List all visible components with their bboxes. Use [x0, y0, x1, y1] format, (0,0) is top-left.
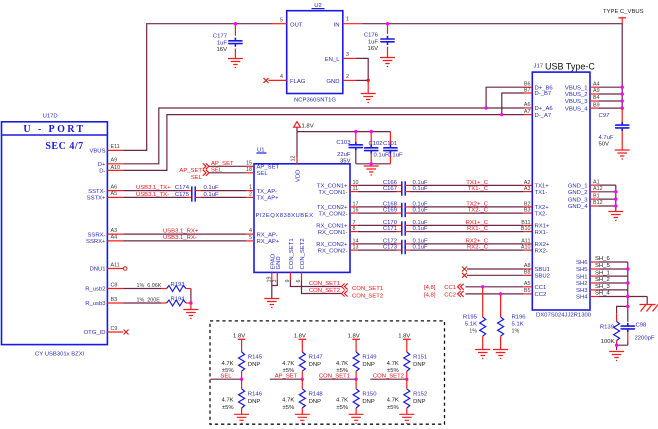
svg-text:15: 15 [246, 160, 252, 166]
svg-text:SEL: SEL [257, 171, 269, 177]
no-connect X on SBU2 [462, 273, 467, 278]
junction GND_3 [614, 197, 617, 200]
J17 pin A4 VBUS_1 stub [590, 81, 600, 87]
J17 pin A6 stub [524, 102, 533, 108]
ground below U1 [264, 299, 279, 308]
svg-text:SH3: SH3 [576, 288, 588, 294]
svg-text:R_usb2: R_usb2 [85, 287, 105, 293]
svg-text:VBUS: VBUS [89, 149, 105, 155]
junction GND_4 [614, 204, 617, 207]
svg-text:SH2: SH2 [576, 281, 587, 287]
wire U1 pin 10 to C166 [358, 184, 397, 186]
ground below R194 [183, 310, 198, 319]
U1 pin 7 stub [350, 220, 358, 226]
junction cap ground node [370, 162, 373, 165]
svg-text:C174: C174 [175, 185, 190, 191]
svg-text:R152: R152 [413, 392, 427, 398]
svg-text:USB3.1_RX+: USB3.1_RX+ [163, 228, 199, 234]
junction D- / B7 [500, 113, 503, 116]
svg-text:B11: B11 [521, 220, 530, 226]
junction C102 top [370, 130, 373, 133]
ground below R195 [475, 350, 490, 359]
svg-text:±5%: ±5% [387, 405, 400, 411]
svg-text:17: 17 [353, 201, 359, 207]
wire net AP_SET [270, 378, 303, 380]
svg-text:VBUS_2: VBUS_2 [565, 92, 588, 98]
svg-text:D+_A6: D+_A6 [535, 106, 554, 112]
svg-text:5: 5 [249, 235, 252, 241]
svg-text:A3: A3 [111, 228, 118, 234]
svg-text:C103: C103 [336, 140, 351, 146]
svg-text:2: 2 [346, 74, 349, 80]
svg-text:CC1: CC1 [444, 285, 456, 291]
ground below GND pins [608, 212, 623, 221]
J17 SH5 stub and net label SH_5 [590, 263, 610, 269]
U17D pin SSRX+ A4 [86, 235, 123, 245]
wire U1 pin 13 to C173 [358, 249, 397, 251]
svg-text:DX07S024JJ2R1300: DX07S024JJ2R1300 [536, 313, 592, 319]
U1 pin 14 stub [350, 238, 359, 244]
svg-text:OUT: OUT [290, 22, 303, 28]
capacitor C173 0.1uF [383, 245, 428, 255]
wire C170 to J17 B11 [411, 224, 524, 226]
svg-text:A10: A10 [111, 165, 121, 171]
J17 SH2 stub and net label SH_2 [590, 277, 610, 283]
svg-text:35V: 35V [340, 158, 351, 164]
svg-text:1uF: 1uF [368, 40, 379, 46]
svg-text:J17: J17 [534, 64, 544, 70]
svg-text:U - PORT: U - PORT [23, 124, 85, 135]
U1 pin 12 VDD stub [291, 156, 298, 164]
svg-text:8: 8 [353, 226, 356, 232]
no-connect X on SBU1 [462, 267, 467, 272]
wire node to ground [367, 80, 369, 93]
power symbol TYPE C_VBUS [603, 9, 644, 24]
junction VBUS/C177 [234, 22, 237, 25]
svg-text:SBU1: SBU1 [535, 267, 550, 273]
svg-text:12: 12 [291, 156, 297, 162]
voltage regulator U2 NCP360SNT1G [287, 3, 343, 104]
svg-text:CON_SET2: CON_SET2 [300, 238, 306, 269]
svg-text:RX_AP+: RX_AP+ [257, 239, 280, 245]
wire SEL to U1 pin 18 [209, 172, 246, 174]
svg-text:SH_6: SH_6 [595, 256, 610, 262]
svg-text:4.7K: 4.7K [336, 361, 348, 367]
svg-text:DNP: DNP [309, 362, 322, 368]
capacitor C103 [336, 132, 362, 165]
svg-text:SEL: SEL [220, 373, 232, 379]
J17 pin B8 SBU2 stub [524, 270, 533, 276]
J17 SH4 stub and net label SH_4 [590, 291, 610, 297]
svg-text:TX1+_C: TX1+_C [466, 180, 489, 186]
svg-text:IN: IN [334, 22, 340, 28]
J17 pin A1 GND_1 stub [590, 179, 600, 185]
junction R139/C98 [615, 344, 618, 347]
resistor R145 4.7K DNP [221, 352, 262, 379]
ground below R139 [609, 352, 624, 361]
U1 left pin stubs [246, 166, 254, 241]
svg-text:TX1+: TX1+ [535, 184, 550, 190]
svg-text:VBUS_1: VBUS_1 [565, 85, 588, 91]
wire B7 branch [502, 93, 524, 115]
svg-text:USB3.1_TX+: USB3.1_TX+ [136, 185, 171, 191]
wire C168 to J17 B2 [411, 206, 524, 208]
svg-text:2: 2 [249, 192, 252, 198]
U17D pin VBUS E11 [89, 144, 123, 154]
capacitor C98 2200pF [621, 323, 655, 346]
svg-text:[4,8]: [4,8] [424, 285, 436, 291]
DNP option dashed box [210, 321, 445, 424]
resistor R150 4.7K DNP [336, 379, 377, 414]
svg-text:SH_3: SH_3 [595, 284, 610, 290]
svg-text:A11: A11 [521, 238, 530, 244]
svg-text:SSTX+: SSTX+ [87, 196, 106, 202]
junction SH2 [626, 281, 629, 284]
svg-text:4.7K: 4.7K [221, 398, 233, 404]
junction EN_L/GND [367, 79, 370, 82]
wire CC2 [466, 293, 524, 295]
svg-text:A11: A11 [111, 262, 120, 268]
J17 pin B3 stub [524, 208, 533, 214]
svg-text:D+: D+ [98, 162, 106, 168]
svg-text:SH5: SH5 [576, 267, 588, 273]
svg-text:C168: C168 [383, 201, 398, 207]
svg-text:VBUS_4: VBUS_4 [565, 106, 588, 112]
U17D pin D- A10 [99, 165, 123, 175]
svg-text:13: 13 [353, 245, 359, 251]
svg-text:DNU1: DNU1 [89, 267, 105, 273]
svg-text:DNP: DNP [248, 362, 261, 368]
svg-text:16: 16 [353, 208, 359, 214]
svg-text:AP_SET: AP_SET [179, 168, 202, 174]
wires VBUS pins to rail [598, 87, 622, 108]
J17 SH3 stub and net label SH_3 [590, 284, 610, 290]
junction AP_SET divider [301, 378, 304, 381]
junction R139 branch [626, 305, 629, 308]
ground below U2 [361, 94, 376, 103]
svg-text:R194: R194 [171, 297, 186, 303]
svg-text:RX2-_C: RX2-_C [467, 245, 489, 251]
svg-text:TX1-: TX1- [535, 190, 548, 196]
svg-text:A9: A9 [111, 158, 118, 164]
svg-text:RX2+_C: RX2+_C [466, 238, 489, 244]
ground below R146 [234, 414, 249, 423]
junction C103 top [354, 130, 357, 133]
svg-text:A3: A3 [524, 186, 531, 192]
junction CC2/R196 [499, 292, 502, 295]
svg-text:SH1: SH1 [576, 274, 587, 280]
U2 pin 2 GND stub [343, 74, 357, 81]
wire R_usb2 to R193 [123, 288, 161, 290]
svg-text:A1: A1 [593, 179, 600, 185]
junction IN/C176 [386, 22, 389, 25]
svg-text:1%: 1% [512, 329, 520, 335]
svg-text:C167: C167 [383, 186, 397, 192]
svg-text:100K: 100K [601, 339, 615, 345]
wire SH bus to R139/C98 [617, 306, 628, 322]
J17 SH6 stub and net label SH_6 [590, 256, 610, 262]
svg-text:VDD: VDD [296, 170, 302, 182]
svg-text:EN_L: EN_L [325, 57, 340, 63]
svg-text:CC2: CC2 [535, 292, 547, 298]
capacitor C171 0.1uF [383, 226, 428, 236]
wire C166 to J17 A2 [411, 184, 524, 186]
junction CON_SET2 divider [405, 378, 408, 381]
svg-text:R145: R145 [248, 355, 263, 361]
svg-text:SEL: SEL [191, 175, 203, 181]
U17D pin SSTX+ A5 [87, 191, 123, 201]
svg-text:A6: A6 [111, 184, 118, 190]
junction SEL divider [240, 378, 243, 381]
svg-text:SBU2: SBU2 [535, 274, 550, 280]
svg-text:B8: B8 [524, 270, 531, 276]
wire AP_SET to U1 pin 15 [209, 165, 246, 167]
U-PORT block U17D [2, 114, 108, 358]
ground below C176 [380, 58, 395, 67]
svg-text:4.7K: 4.7K [387, 361, 399, 367]
off-page connector SEL [191, 167, 223, 181]
wire C175 to U1 TX_AP+ [201, 196, 246, 198]
svg-text:A6: A6 [524, 102, 531, 108]
svg-text:DNP: DNP [413, 362, 426, 368]
svg-text:4.7K: 4.7K [336, 398, 348, 404]
U1 pin 16 stub [350, 208, 359, 214]
svg-text:1.8V: 1.8V [294, 333, 306, 339]
wire C167 to J17 A3 [411, 191, 524, 193]
off-page connector AP_SET [179, 161, 234, 174]
U1 pin 8 stub [350, 226, 358, 232]
no-connect X on FLAG [264, 78, 269, 83]
svg-text:SH6: SH6 [576, 260, 588, 266]
svg-text:R151: R151 [413, 355, 427, 361]
wire SH4 to chassis [646, 297, 648, 305]
U1 pin 11 stub [350, 186, 358, 192]
svg-text:CON_SET1: CON_SET1 [309, 281, 340, 287]
wire B6 branch [486, 87, 524, 108]
svg-text:PI2EQX838XUBEX: PI2EQX838XUBEX [256, 213, 314, 219]
chassis ground [640, 305, 658, 312]
J17 pin B4 VBUS_3 stub [590, 95, 600, 101]
J17 pin A11 stub [521, 238, 532, 244]
capacitor C170 0.1uF [383, 220, 428, 230]
wire U1 pin 8 to C171 [358, 231, 397, 233]
U2 pin 4 FLAG stub [269, 74, 287, 81]
svg-text:[4,8]: [4,8] [424, 292, 436, 298]
wire net SEL [211, 378, 242, 380]
svg-text:RX_CON2+: RX_CON2+ [316, 242, 348, 248]
svg-text:1%: 1% [469, 329, 477, 335]
svg-text:USB Type-C: USB Type-C [545, 62, 595, 72]
J17 pin B10 stub [521, 226, 532, 232]
power symbol 1.8V column R145 [233, 333, 245, 352]
svg-text:TX_AP+: TX_AP+ [257, 196, 280, 202]
resistor R149 4.7K DNP [336, 352, 377, 379]
U1 pin 17 stub [350, 201, 359, 207]
junction CC1/R195 [481, 285, 484, 288]
U2 pin 5 OUT stub [272, 17, 287, 23]
U17D pin D+ A9 [98, 158, 123, 168]
svg-text:C169: C169 [383, 208, 397, 214]
svg-text:1.8V: 1.8V [233, 333, 245, 339]
svg-text:B2: B2 [524, 201, 531, 207]
resistor R193 [137, 282, 191, 292]
svg-text:GND_4: GND_4 [568, 204, 588, 210]
wire 1.8V rail to VDD and caps [297, 127, 390, 157]
capacitor C175 [175, 192, 219, 202]
wire node to ground [190, 303, 192, 310]
junction D+ / B6 [484, 106, 487, 109]
svg-text:C8: C8 [111, 282, 118, 288]
svg-text:E11: E11 [111, 144, 120, 150]
svg-text:CC1: CC1 [535, 285, 547, 291]
svg-text:4.7K: 4.7K [282, 361, 294, 367]
svg-text:TX2+: TX2+ [535, 205, 550, 211]
svg-text:5.1K: 5.1K [512, 322, 524, 328]
wire R_usb3 to R194 [123, 302, 161, 304]
J17 pin A2 stub [524, 180, 533, 186]
svg-text:2200pF: 2200pF [635, 336, 655, 342]
svg-text:SH_2: SH_2 [595, 277, 610, 283]
svg-text:18: 18 [246, 167, 252, 173]
capacitor C97 4.7uF [599, 108, 629, 150]
capacitor C166 0.1uF [383, 180, 428, 190]
svg-text:16V: 16V [217, 47, 228, 53]
no-connect X on OTG_ID [124, 330, 129, 335]
svg-text:TX_CON1+: TX_CON1+ [317, 184, 348, 190]
wire SSRX- to U1 RX_AP- [123, 233, 246, 235]
junction CON_SET1 divider [355, 378, 358, 381]
svg-text:RX2+: RX2+ [535, 242, 550, 248]
wire IN to TYPE C_VBUS rail [362, 24, 622, 87]
svg-text:A4: A4 [111, 235, 118, 241]
capacitor C169 0.1uF [383, 208, 428, 218]
svg-text:B9: B9 [593, 102, 600, 108]
power symbol 1.8V column R149 [348, 333, 360, 352]
svg-text:RX1+_C: RX1+_C [466, 220, 489, 226]
svg-text:GND_3: GND_3 [568, 197, 588, 203]
wire CON_SET2 [302, 280, 342, 294]
svg-text:R146: R146 [248, 392, 263, 398]
svg-text:TX_CON2+: TX_CON2+ [317, 205, 348, 211]
svg-text:3: 3 [346, 52, 349, 58]
power symbol 1.8V at U1 [294, 122, 314, 130]
wire SSTX+ to C175 [123, 196, 186, 198]
junction VBUS_3 [621, 99, 624, 102]
svg-text:DNP: DNP [413, 399, 426, 405]
off-page connector CON_SET1 [309, 281, 383, 292]
wire VBUS to U2 OUT [123, 24, 272, 151]
J17 SH1 stub and net label SH_1 [590, 270, 610, 276]
junction VBUS_2 [621, 92, 624, 95]
resistor R195 5.1K [463, 287, 486, 350]
svg-text:CON_SET1: CON_SET1 [352, 286, 383, 292]
capacitor C177 [213, 24, 242, 59]
svg-text:4: 4 [249, 228, 252, 234]
svg-text:R196: R196 [512, 315, 527, 321]
svg-text:CC2: CC2 [444, 292, 456, 298]
svg-text:16V: 16V [368, 46, 379, 52]
svg-text:CON_SET2: CON_SET2 [309, 288, 340, 294]
wire C174 to U1 TX_AP- [201, 190, 246, 192]
svg-text:AP_SET: AP_SET [275, 373, 298, 379]
junction GND_2 [614, 190, 617, 193]
svg-text:A5: A5 [524, 281, 531, 287]
J17 pin A3 stub [524, 186, 533, 192]
resistor R148 4.7K DNP [282, 379, 323, 414]
wire SBU2 [467, 274, 524, 276]
svg-text:R148: R148 [309, 392, 324, 398]
J17 right pin names [565, 85, 588, 300]
svg-text:A2: A2 [524, 180, 531, 186]
svg-text:CON_SET2: CON_SET2 [352, 294, 383, 300]
ground below R152 [399, 414, 414, 423]
svg-text:B4: B4 [593, 95, 600, 101]
J17 pin B1 GND_3 stub [590, 193, 600, 199]
svg-text:A12: A12 [593, 186, 603, 192]
svg-text:GND: GND [276, 256, 282, 269]
wire U1 pin 7 to C170 [358, 224, 397, 226]
svg-text:4.7K: 4.7K [282, 398, 294, 404]
svg-text:TX2-: TX2- [535, 211, 548, 217]
U17D pin SSTX- A6 [88, 184, 123, 194]
J17 pin B9 VBUS_4 stub [590, 102, 600, 108]
svg-text:0.1uF: 0.1uF [388, 152, 403, 158]
U2 pin 3 EN_L stub [343, 52, 357, 59]
svg-text:SSRX-: SSRX- [87, 232, 105, 238]
svg-text:CY USB301x BZXI: CY USB301x BZXI [35, 351, 85, 357]
resistor R147 4.7K DNP [282, 352, 323, 379]
U1 pin 10 stub [350, 180, 359, 186]
U17D pin R_usb2 C8 [85, 282, 123, 292]
svg-text:SSRX+: SSRX+ [86, 239, 106, 245]
svg-text:R195: R195 [463, 315, 478, 321]
svg-text:C170: C170 [383, 220, 398, 226]
capacitor C176 [364, 24, 394, 58]
wire U1 pin 11 to C167 [358, 191, 397, 193]
svg-text:50V: 50V [599, 142, 610, 148]
svg-text:14: 14 [353, 238, 359, 244]
svg-text:R139: R139 [600, 325, 614, 331]
capacitor C172 0.1uF [383, 238, 428, 248]
svg-text:TX2+_C: TX2+_C [466, 201, 489, 207]
svg-text:4: 4 [280, 74, 283, 80]
svg-text:GND: GND [326, 79, 339, 85]
svg-text:1uF: 1uF [217, 41, 228, 47]
resistor R151 4.7K DNP [387, 352, 428, 379]
U1 left pin numbers [246, 160, 252, 241]
redriver U1 PI2EQX838XUBEX [254, 148, 350, 273]
svg-text:D-_A7: D-_A7 [535, 113, 552, 119]
resistor R196 5.1K [498, 294, 527, 350]
wire SBU1 [467, 268, 524, 270]
junction VBUS_1 [621, 86, 624, 89]
svg-text:11: 11 [353, 186, 359, 192]
svg-text:NCP360SNT1G: NCP360SNT1G [294, 98, 336, 104]
svg-text:4.7K: 4.7K [221, 361, 233, 367]
resistor R146 4.7K DNP [221, 379, 262, 414]
wire CON_SET1 [290, 280, 341, 287]
J17 pin A10 stub [521, 245, 532, 251]
svg-text:C173: C173 [383, 245, 398, 251]
J17 pin B2 stub [524, 201, 533, 207]
wire C169 to J17 B3 [411, 212, 524, 214]
svg-text:5: 5 [280, 17, 283, 23]
svg-text:RX1+: RX1+ [535, 224, 550, 230]
wire D- up and across [123, 115, 524, 171]
svg-text:TX_CON2-: TX_CON2- [318, 211, 347, 217]
svg-text:RX_AP-: RX_AP- [257, 232, 278, 238]
svg-text:AP_SET: AP_SET [257, 165, 280, 171]
